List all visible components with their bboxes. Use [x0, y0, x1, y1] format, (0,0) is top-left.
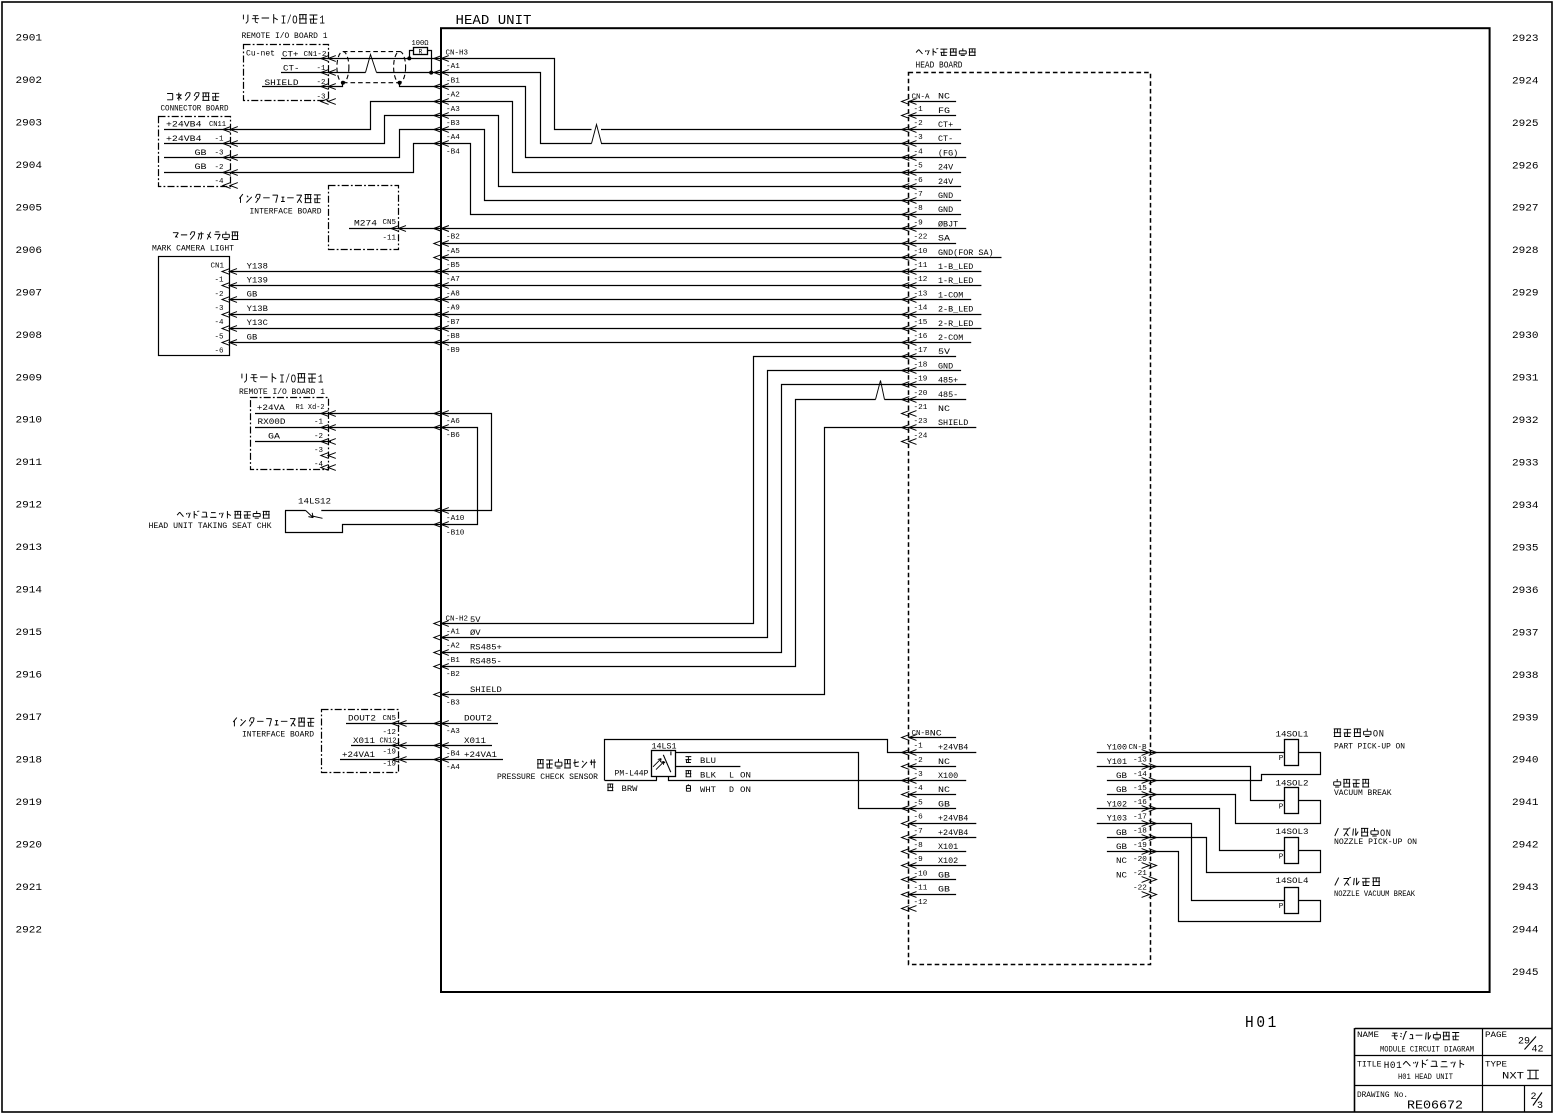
svg-text:Y100: Y100: [1107, 743, 1127, 753]
title block TYPE cell NXT II: [1485, 1062, 1539, 1083]
svg-text:2934: 2934: [1512, 500, 1539, 512]
svg-text:-14: -14: [914, 305, 928, 313]
svg-text:2921: 2921: [16, 882, 43, 894]
svg-text:TITLE: TITLE: [1357, 1062, 1382, 1070]
wire net SHIELD cu-net (A2 to CN-A (FG)): [329, 83, 909, 158]
connector CN-A pin 3 net CT-: [902, 134, 962, 146]
svg-text:-11: -11: [914, 885, 928, 893]
wire net SHIELD (CN-H2 to CN-A 23): [442, 428, 909, 695]
svg-text:-8: -8: [914, 842, 923, 850]
svg-text:2925: 2925: [1512, 118, 1539, 130]
svg-text:Cu-net: Cu-net: [246, 49, 275, 59]
svg-text:2938: 2938: [1512, 670, 1539, 682]
svg-text:2917: 2917: [16, 712, 43, 724]
connector CN-B pin 16 net Y102: [1097, 799, 1157, 811]
title block NAME cell: [1357, 1031, 1474, 1054]
svg-text:14SOL3: 14SOL3: [1276, 828, 1309, 837]
connector CN-H2 pin B1 net RS485-: [434, 657, 502, 670]
board: CONNECTOR BOARD dash-dot outline: [159, 117, 231, 187]
connector CN-A pin 19 net 485+: [902, 376, 967, 388]
board: REMOTE I/O BOARD 1 dash-dot outline: [244, 45, 329, 101]
connector Xd rows +24VA RX00D GA: [255, 403, 336, 471]
svg-text:-17: -17: [1133, 813, 1147, 821]
wire net 0V/GND (CN-H2 to CN-A 18): [442, 371, 909, 638]
svg-text:1-R_LED: 1-R_LED: [938, 276, 973, 286]
svg-text:RE06672: RE06672: [1407, 1099, 1463, 1113]
svg-text:NC: NC: [938, 92, 950, 102]
svg-text:+24VB4: +24VB4: [938, 828, 968, 838]
svg-text:14SOL4: 14SOL4: [1276, 877, 1309, 886]
connector CN-A pin 21 net NC: [902, 404, 951, 416]
svg-text:-21: -21: [1133, 870, 1147, 878]
svg-text:-2: -2: [914, 757, 923, 765]
wire net CT+ (A1 to CN-A CT+): [329, 59, 909, 130]
svg-text:-6: -6: [215, 348, 224, 356]
svg-text:PRESSURE CHECK SENSOR: PRESSURE CHECK SENSOR: [497, 773, 598, 782]
svg-text:P: P: [1279, 903, 1284, 911]
svg-text:2912: 2912: [16, 500, 43, 512]
svg-text:X102: X102: [938, 856, 958, 866]
connector CN-B pin 12 net nc: [902, 899, 928, 912]
connector CN-H2 pin A4 net +24VA1: [434, 750, 503, 772]
wire X011 to B4: [399, 745, 441, 747]
svg-text:2915: 2915: [16, 627, 43, 639]
svg-text:-12: -12: [914, 899, 928, 907]
connector CN-A pin 14 net 2-B_LED: [902, 305, 982, 318]
svg-text:-12: -12: [914, 276, 928, 284]
svg-text:-8: -8: [914, 205, 923, 213]
wire net Y138 1-B_LED: [229, 271, 909, 273]
board: INTERFACE BOARD (upper) titles: [239, 194, 321, 216]
connector CN-B pin 21 net NC: [1116, 870, 1157, 882]
wire A3 to CN-A 24V: [442, 102, 909, 173]
svg-text:2905: 2905: [16, 202, 43, 214]
svg-text:2908: 2908: [16, 330, 43, 342]
wire Y103 to 14SOL4: [1150, 824, 1285, 901]
svg-text:-2: -2: [215, 291, 224, 299]
connector CN-H3 pin B6: [434, 425, 460, 440]
svg-text:-18: -18: [914, 361, 928, 369]
svg-text:RS485+: RS485+: [470, 642, 502, 652]
HEAD UNIT title: [456, 14, 532, 29]
head unit enclosure box: [441, 28, 1490, 992]
connector CN-A pin 6 net 24V: [902, 177, 962, 190]
wire net CT- (B1 to CN-A CT-): [329, 55, 909, 144]
wire SA (A5 to CN-A): [441, 243, 909, 245]
connector CN-H2 pin A1 net ØV: [434, 628, 482, 640]
svg-text:DOUT2: DOUT2: [464, 713, 492, 723]
svg-text:X011: X011: [464, 736, 486, 746]
solenoid 14SOL2: [1276, 780, 1309, 814]
svg-text:2945: 2945: [1512, 967, 1539, 979]
svg-text:ØV: ØV: [470, 628, 481, 638]
wire Y100 to 14SOL1: [1149, 752, 1284, 754]
connector CN-A pin 23 net SHIELD: [902, 418, 977, 430]
svg-text:/: /: [287, 13, 292, 27]
label pressure check sensor (jp+en): [497, 759, 598, 782]
svg-text:-B4: -B4: [446, 148, 460, 156]
connector CN-A pin 2 net CT+: [902, 120, 962, 132]
svg-text:RS485-: RS485-: [470, 657, 502, 667]
svg-text:-13: -13: [1133, 757, 1147, 765]
svg-text:CN-H3: CN-H3: [446, 49, 469, 57]
svg-text:NOZZLE PICK-UP ON: NOZZLE PICK-UP ON: [1334, 839, 1417, 847]
solenoid 14SOL3: [1276, 828, 1309, 863]
svg-text:CONNECTOR BOARD: CONNECTOR BOARD: [161, 105, 229, 114]
svg-text:2910: 2910: [16, 415, 43, 427]
board: REMOTE I/O BOARD 1 (lower) dash-dot outline: [251, 398, 329, 470]
wire 14SOL3 return to GB -18: [1150, 838, 1321, 873]
board: MARK CAMERA LIGHT titles: [152, 232, 238, 254]
svg-text:2918: 2918: [16, 754, 43, 766]
right margin row numbers 2923-2945: [1512, 33, 1539, 979]
wire Y102 to 14SOL3: [1150, 809, 1285, 851]
wire OBJT M274 to CN-A: [349, 228, 909, 230]
svg-text:-10: -10: [914, 248, 928, 256]
svg-text:RX00D: RX00D: [258, 417, 286, 427]
twisted pair crossover mark on 485 pair: [876, 381, 885, 400]
connector CN-H3 pin A6: [434, 411, 460, 426]
svg-text:+24VB4: +24VB4: [938, 814, 968, 824]
connector CN-B pin 7 net +24VB4: [902, 828, 977, 841]
svg-text:2927: 2927: [1512, 203, 1539, 215]
svg-text:N: N: [1379, 729, 1384, 741]
label NOZZLE VACUUM BREAK (jp+en): [1334, 877, 1415, 899]
svg-text:GB: GB: [247, 290, 258, 300]
connector CN-A pin 12 net 1-R_LED: [902, 276, 982, 288]
svg-text:2920: 2920: [16, 839, 43, 851]
svg-text:HEAD UNIT: HEAD UNIT: [456, 14, 532, 29]
svg-text:R1 Xd-2: R1 Xd-2: [296, 404, 325, 412]
connector CN-H2 pin B3 net SHIELD: [434, 685, 502, 707]
svg-text:H01 HEAD UNIT: H01 HEAD UNIT: [1398, 1074, 1453, 1082]
svg-text:-1: -1: [317, 65, 326, 73]
svg-text:GB: GB: [1116, 771, 1127, 781]
svg-text:-17: -17: [914, 347, 928, 355]
svg-text:42: 42: [1532, 1044, 1544, 1055]
svg-text:-7: -7: [914, 828, 923, 836]
connector CN1 camera pins: [211, 262, 238, 355]
svg-text:NC: NC: [938, 404, 950, 414]
connector CN-H3 pin A10: [434, 508, 465, 524]
svg-text:PART PICK-UP ON: PART PICK-UP ON: [1334, 744, 1405, 752]
svg-text:Y101: Y101: [1107, 757, 1127, 767]
connector CN-H3 pin B4: [434, 141, 460, 157]
connector CN-H2 pin A2 net RS485+: [434, 642, 502, 655]
label BLK L ON: [686, 770, 752, 780]
svg-text:PM-L44P: PM-L44P: [615, 769, 649, 778]
title block PAGE cell 29/42: [1485, 1032, 1544, 1054]
wire B6 loop to B10 inside head unit: [442, 428, 478, 525]
svg-text:2941: 2941: [1512, 797, 1539, 809]
svg-text:+24VA1: +24VA1: [342, 750, 375, 760]
wire Y101 to 14SOL2: [1150, 767, 1285, 801]
svg-text:GB: GB: [195, 148, 207, 158]
connector CN-B pin 19 net GB: [1107, 842, 1157, 855]
wire GND FOR SA (B5 to CN-A): [441, 257, 909, 259]
connector CN-H3 pin B8: [434, 326, 460, 341]
connector CN-A pin 1 net FG: [902, 106, 957, 119]
svg-text:-A1: -A1: [446, 628, 460, 636]
label head unit taking seat chk (jp+en): [149, 511, 272, 531]
svg-text:-B6: -B6: [446, 432, 460, 440]
wire net Y13C 2-R_LED: [229, 328, 909, 330]
svg-text:2914: 2914: [16, 585, 43, 597]
switch 14LS12 head unit taking seat check: [285, 498, 442, 533]
svg-text:BLK: BLK: [700, 770, 717, 780]
svg-text:2903: 2903: [16, 118, 43, 130]
label PART PICK-UP ON (jp+en): [1334, 729, 1406, 752]
connector CN-H3 pin B2: [434, 226, 460, 242]
svg-text:REMOTE I/O BOARD 1: REMOTE I/O BOARD 1: [239, 387, 325, 397]
connector CN-B pin 2 net NC: [902, 757, 957, 770]
connector CN-H3 name label: [446, 49, 469, 57]
svg-text:2-R_LED: 2-R_LED: [938, 319, 973, 329]
svg-text:2936: 2936: [1512, 585, 1539, 597]
wire net RS485+ (CN-H2 to CN-A 19): [442, 385, 909, 653]
svg-text:TYPE: TYPE: [1485, 1062, 1507, 1070]
connector CN-H3 pin A2: [434, 84, 460, 100]
connector CN-H3 pin B3: [434, 113, 460, 128]
svg-text:2919: 2919: [16, 797, 43, 809]
svg-text:NOZZLE VACUUM BREAK: NOZZLE VACUUM BREAK: [1334, 891, 1415, 899]
svg-text:2923: 2923: [1512, 33, 1539, 45]
connector CN-H3 pin B9: [434, 340, 460, 356]
connector CN-B pin 20 net NC: [1116, 856, 1157, 868]
svg-text:-15: -15: [1133, 785, 1147, 793]
connector CN5/CN12 rows DOUT2 X011 +24VA1: [340, 713, 407, 768]
svg-text:-16: -16: [914, 333, 928, 341]
svg-text:GB: GB: [1116, 785, 1127, 795]
svg-text:I: I: [281, 13, 287, 27]
left margin row numbers 2901-2922: [16, 33, 43, 937]
svg-text:2: 2: [1531, 1091, 1537, 1102]
connector CN-B pin 5 net GB: [902, 799, 957, 811]
wire net GB 2-COM: [229, 342, 909, 344]
svg-text:-1: -1: [215, 135, 224, 143]
svg-text:2916: 2916: [16, 670, 43, 682]
label WHT D ON: [686, 784, 751, 794]
connector CN-A pin 16 net 2-COM: [902, 333, 972, 345]
connector CN-H3 pin A3: [434, 99, 460, 114]
solenoid 14SOL4: [1276, 877, 1309, 914]
wire net 5V (CN-H2 to CN-A 17): [442, 357, 909, 624]
connector CN-A pin 7 net GND: [902, 191, 962, 203]
label VACUUM BREAK (jp+en): [1334, 779, 1392, 798]
board: INTERFACE BOARD (lower) dash-dot outline: [322, 710, 399, 773]
svg-text:-B3: -B3: [446, 699, 460, 707]
connector CN-A pin 17 net 5V: [902, 347, 957, 359]
svg-text:CT-: CT-: [938, 134, 953, 144]
svg-text:X100: X100: [938, 771, 958, 781]
connector CN-A pin 5 net 24V: [902, 163, 962, 176]
wire BLK output to CN-B 3 X100: [669, 777, 909, 781]
svg-text:+24VA1: +24VA1: [464, 750, 497, 760]
svg-text:X011: X011: [353, 736, 375, 746]
svg-text:-1: -1: [914, 743, 923, 751]
svg-text:-1: -1: [215, 277, 224, 285]
connector CN-B pin 15 net GB: [1107, 785, 1157, 797]
connector CN-A pin 22 net SA: [902, 234, 957, 247]
wire 14LS1 common to CN-B 5 GB: [676, 753, 909, 809]
svg-text:1: 1: [318, 372, 324, 386]
svg-text:GB: GB: [247, 332, 258, 342]
svg-text:-6: -6: [914, 177, 923, 185]
svg-text:GND: GND: [938, 191, 953, 201]
svg-text:-11: -11: [914, 262, 928, 270]
wire 14SOL1 return to GB -14: [1150, 753, 1321, 781]
svg-text:-5: -5: [215, 333, 224, 341]
svg-text:2906: 2906: [16, 245, 43, 257]
svg-text:-19: -19: [383, 748, 397, 756]
svg-text:-14: -14: [1133, 771, 1147, 779]
svg-text:CN1: CN1: [211, 262, 225, 270]
svg-text:2907: 2907: [16, 287, 43, 299]
svg-text:+24VA: +24VA: [257, 403, 286, 413]
svg-text:2937: 2937: [1512, 627, 1539, 639]
connector CN11 rows: [164, 120, 238, 189]
connector CN-H2 name + 5V pin: [434, 615, 482, 627]
svg-text:P: P: [1279, 755, 1284, 763]
svg-text:SA: SA: [938, 234, 951, 244]
svg-text:-4: -4: [215, 178, 224, 186]
svg-text:-4: -4: [914, 785, 923, 793]
label Cu-net: [246, 49, 275, 59]
svg-text:1: 1: [319, 13, 325, 27]
wire RX00D to B6: [328, 427, 441, 429]
svg-text:NXT: NXT: [1502, 1071, 1524, 1083]
junction dots on cable shield: [341, 81, 402, 85]
svg-text:M274: M274: [354, 219, 377, 229]
label NOZZLE PICK-UP ON (jp+en): [1334, 828, 1417, 848]
svg-text:NC: NC: [938, 757, 950, 767]
svg-text:CT-: CT-: [283, 63, 300, 73]
svg-text:2931: 2931: [1512, 373, 1539, 385]
label BLU blue wire: [686, 756, 717, 766]
svg-text:-3: -3: [914, 134, 923, 142]
svg-text:-4: -4: [215, 319, 224, 327]
connector CN-H2 pin A3 net DOUT2: [434, 713, 498, 735]
wire net GB 1-COM: [229, 299, 909, 301]
svg-text:2930: 2930: [1512, 330, 1539, 342]
svg-text:D: D: [729, 785, 734, 795]
svg-text:-3: -3: [215, 305, 224, 313]
board: CONNECTOR BOARD titles: [161, 93, 229, 114]
wire B3 to CN-A 24V: [442, 116, 909, 187]
svg-text:FG: FG: [938, 106, 950, 116]
svg-text:-24: -24: [914, 432, 928, 440]
svg-text:ON: ON: [740, 785, 751, 795]
svg-text:-5: -5: [914, 799, 923, 807]
connector CN-A pin 13 net 1-COM: [902, 290, 972, 302]
svg-text:O: O: [292, 13, 298, 27]
board: REMOTE I/O BOARD 1 (lower) titles: [239, 372, 325, 397]
svg-text:O: O: [1373, 729, 1378, 741]
wire +24VA1 to A4: [399, 759, 441, 761]
svg-text:2-B_LED: 2-B_LED: [938, 305, 973, 315]
svg-text:DOUT2: DOUT2: [348, 713, 376, 723]
wire net Y139 1-R_LED: [229, 285, 909, 287]
head board title (jp) + HEAD BOARD: [916, 48, 976, 70]
svg-text:O: O: [291, 372, 297, 386]
connector CN-H3 pin A4: [434, 127, 460, 143]
svg-text:REMOTE I/O BOARD 1: REMOTE I/O BOARD 1: [242, 31, 328, 41]
svg-text:NC: NC: [1116, 870, 1127, 880]
svg-text:-3: -3: [314, 447, 323, 455]
connector CN-A pin 9 net ØBJT: [902, 219, 967, 231]
svg-text:I: I: [279, 372, 285, 386]
connector CN-H3 pin B1: [434, 70, 460, 86]
title block: [1355, 1028, 1552, 1112]
svg-text:-B10: -B10: [446, 529, 464, 537]
wire net Y13B 2-B_LED: [229, 314, 909, 316]
svg-text:-9: -9: [914, 856, 923, 864]
svg-text:-2: -2: [314, 433, 323, 441]
connector CN-B pin CN-B net NC: [902, 728, 957, 740]
connector CN-B pin 10 net GB: [902, 870, 957, 882]
connector CN-B pin 3 net X100: [902, 771, 967, 783]
connector CN-B pin 13 net Y101: [1097, 757, 1157, 770]
svg-text:-2: -2: [215, 164, 224, 172]
svg-text:2901: 2901: [16, 33, 43, 45]
svg-text:CN-A: CN-A: [912, 93, 931, 101]
svg-text:DRAWING No.: DRAWING No.: [1357, 1092, 1408, 1100]
connector CN-A pin 4 net (FG): [902, 148, 967, 160]
connector CN-H2 pin B2: [446, 671, 460, 679]
connector CN-H3 pin B5: [434, 255, 460, 270]
wire A4 to CN-A GND: [442, 130, 909, 201]
svg-text:0: 0: [1390, 1060, 1396, 1072]
svg-text:2943: 2943: [1512, 882, 1539, 894]
connector CN-H3 pin A9: [434, 297, 460, 313]
wire A6 loop to A10 inside head unit: [442, 414, 492, 511]
wire net RS485- (CN-H2 to CN-A 20): [442, 400, 909, 667]
wire +24VB4 supply to sensor BRW and CN-B 1: [605, 740, 909, 781]
label H01 sheet name: [1245, 1013, 1279, 1032]
svg-text:+24VB4: +24VB4: [166, 120, 202, 130]
svg-text:485-: 485-: [938, 390, 958, 400]
svg-text:CN-H2: CN-H2: [446, 616, 469, 624]
connector CN-B pin CN-B net Y100: [1097, 743, 1157, 756]
svg-text:H: H: [1384, 1060, 1390, 1072]
svg-text:2902: 2902: [16, 75, 43, 87]
svg-text:-1: -1: [914, 106, 923, 114]
svg-text:-3: -3: [914, 771, 923, 779]
svg-text:P: P: [1279, 804, 1284, 812]
svg-text:CN11: CN11: [209, 121, 226, 129]
svg-text:-9: -9: [914, 219, 923, 227]
wire 14SOL4 return to GB -19: [1150, 852, 1321, 922]
svg-text:NAME: NAME: [1357, 1032, 1379, 1040]
svg-text:-B9: -B9: [446, 347, 460, 355]
svg-text:2933: 2933: [1512, 458, 1539, 470]
svg-text:Y139: Y139: [247, 276, 268, 286]
resistor R 100 ohm terminator: [407, 40, 433, 74]
svg-text:2904: 2904: [16, 160, 43, 172]
svg-text:-1: -1: [314, 419, 323, 427]
svg-text:-22: -22: [1133, 884, 1147, 892]
net M274 label + CN5 pin -11: [354, 219, 449, 243]
svg-text:Y103: Y103: [1107, 814, 1127, 824]
connector CN-H3 pin B10: [434, 522, 465, 538]
svg-text:-A4: -A4: [446, 764, 460, 772]
svg-text:2940: 2940: [1512, 755, 1539, 767]
svg-text:2928: 2928: [1512, 245, 1539, 257]
connector CN-A pin 15 net 2-R_LED: [902, 319, 982, 332]
svg-text:2932: 2932: [1512, 415, 1539, 427]
connector CN-A pin 11 net 1-B_LED: [902, 262, 982, 274]
wire 14SOL2 return to GB -15: [1150, 795, 1321, 824]
